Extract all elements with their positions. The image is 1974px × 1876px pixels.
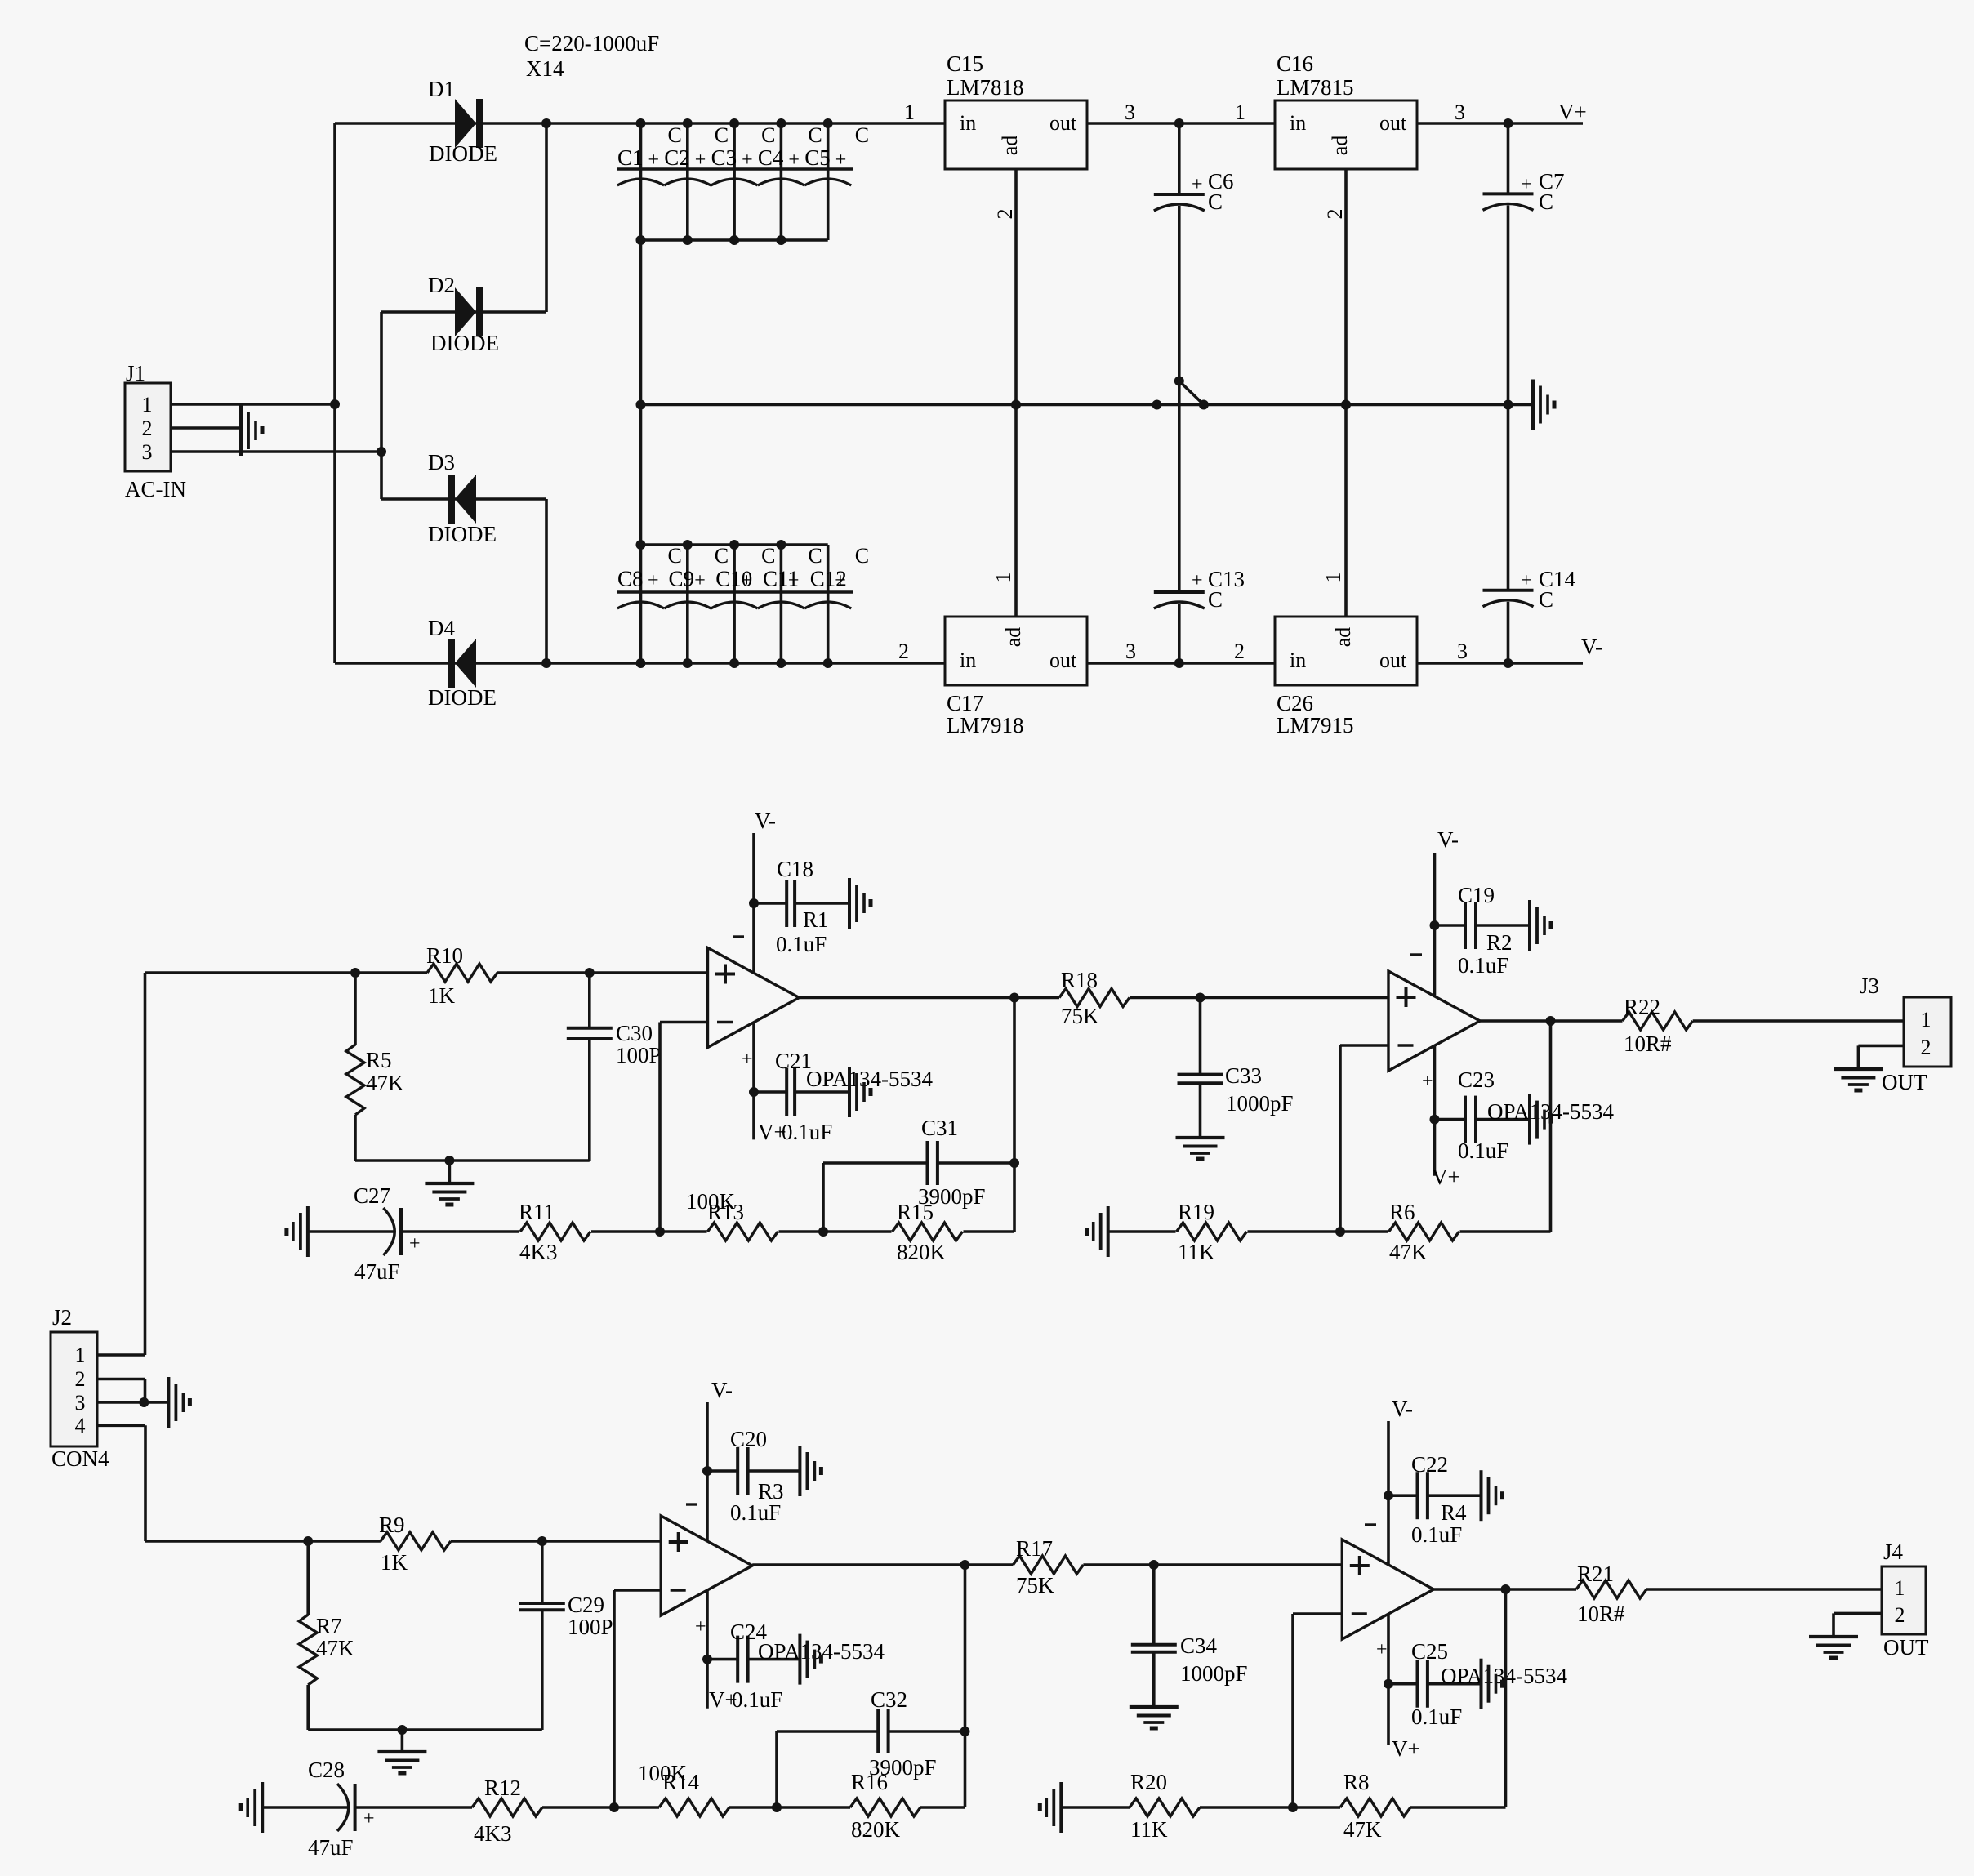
svg-text:D2: D2: [428, 273, 455, 297]
wire U1 output row: [800, 993, 1389, 1003]
svg-text:+: +: [1422, 1071, 1433, 1092]
resistor R7: [299, 1541, 354, 1730]
svg-text:V-: V-: [711, 1378, 733, 1402]
capacitor C11: [763, 544, 822, 663]
svg-text:0.1uF: 0.1uF: [1458, 953, 1508, 978]
ground at R19: [1087, 1206, 1108, 1257]
svg-text:+: +: [742, 1049, 753, 1070]
svg-text:0.1uF: 0.1uF: [1411, 1704, 1462, 1729]
svg-text:C3: C3: [711, 145, 737, 170]
svg-text:C20: C20: [730, 1427, 767, 1451]
wire U1 feedback vertical: [1009, 998, 1019, 1232]
capacitor bank C8-C12 plate line: [617, 592, 853, 608]
svg-text:1: 1: [904, 100, 915, 124]
svg-text:V+: V+: [1392, 1736, 1420, 1761]
svg-text:+: +: [788, 570, 800, 591]
svg-text:0.1uF: 0.1uF: [776, 932, 827, 956]
svg-text:OUT: OUT: [1882, 1070, 1927, 1094]
resistor R8: [1340, 1770, 1410, 1842]
svg-text:C: C: [855, 123, 869, 147]
ground at C28: [241, 1782, 262, 1833]
capacitor C29: [519, 1541, 613, 1730]
svg-text:1: 1: [75, 1344, 86, 1367]
ground at J3: [1834, 1069, 1883, 1090]
svg-text:C19: C19: [1458, 883, 1495, 907]
resistor R19: [1177, 1200, 1247, 1264]
svg-text:4K3: 4K3: [519, 1240, 558, 1264]
resistor R18: [1059, 968, 1130, 1028]
svg-text:ad: ad: [1328, 136, 1352, 156]
ground at C21: [849, 1067, 871, 1117]
svg-text:1K: 1K: [428, 983, 456, 1008]
svg-text:+: +: [695, 149, 706, 171]
svg-text:R19: R19: [1178, 1200, 1214, 1224]
capacitor C10: [715, 544, 775, 663]
svg-text:3: 3: [1125, 100, 1135, 124]
wire U4 inverting input: [1293, 1614, 1342, 1807]
svg-text:1: 1: [1321, 573, 1345, 583]
svg-text:2: 2: [75, 1367, 86, 1391]
svg-text:C26: C26: [1277, 691, 1313, 715]
svg-text:R7: R7: [316, 1614, 342, 1638]
svg-text:LM7915: LM7915: [1277, 713, 1354, 737]
regulator C26 LM7915: [1275, 617, 1417, 737]
wire U1 inverting input: [660, 1023, 708, 1232]
svg-text:C: C: [668, 123, 682, 147]
svg-text:3: 3: [75, 1391, 86, 1415]
svg-text:+: +: [694, 570, 706, 591]
resistor R11: [519, 1200, 590, 1264]
wire D3 anode to bottom rail: [545, 499, 548, 663]
capacitor C23: [1435, 1067, 1615, 1163]
connector J3: [1860, 974, 1951, 1067]
wire U4 output row: [1433, 1584, 1882, 1594]
svg-text:3: 3: [1125, 639, 1136, 663]
svg-text:out: out: [1379, 648, 1407, 672]
svg-text:DIODE: DIODE: [430, 331, 499, 355]
wire AC phase A vertical (J1 pin1 to D1/D4): [330, 123, 340, 663]
svg-text:C15: C15: [947, 51, 983, 76]
svg-text:2: 2: [1921, 1036, 1932, 1059]
svg-text:0.1uF: 0.1uF: [782, 1120, 832, 1144]
wire top bank bottom rail: [636, 235, 828, 245]
svg-text:C9: C9: [669, 567, 695, 591]
capacitor C9: [669, 544, 729, 663]
svg-text:R15: R15: [897, 1200, 934, 1224]
svg-text:C4: C4: [758, 145, 784, 170]
capacitor C21: [754, 1049, 934, 1144]
svg-text:2: 2: [898, 639, 909, 663]
svg-text:J4: J4: [1883, 1540, 1904, 1564]
svg-text:C: C: [761, 123, 775, 147]
svg-text:+: +: [363, 1808, 375, 1829]
svg-text:C: C: [715, 123, 729, 147]
svg-text:47uF: 47uF: [354, 1259, 400, 1284]
svg-text:DIODE: DIODE: [428, 685, 497, 710]
svg-text:2: 2: [1323, 209, 1347, 220]
svg-text:V+: V+: [1432, 1165, 1460, 1189]
svg-text:3: 3: [142, 440, 153, 464]
ground at J4: [1809, 1637, 1858, 1658]
svg-text:47K: 47K: [316, 1636, 354, 1660]
svg-text:LM7815: LM7815: [1277, 75, 1354, 100]
net OUT channel2: [1883, 1635, 1929, 1660]
capacitor C27: [308, 1183, 421, 1284]
svg-text:LM7818: LM7818: [947, 75, 1024, 100]
ground at R20: [1040, 1782, 1061, 1833]
op-amp U1: [708, 948, 800, 1048]
svg-text:+: +: [648, 570, 659, 591]
wire C6-C13 column: [1178, 381, 1181, 593]
capacitor C13: [1154, 567, 1245, 663]
svg-text:C: C: [1208, 189, 1223, 214]
capacitor C22: [1388, 1452, 1482, 1547]
wire J3 pin2 to ground: [1858, 1045, 1904, 1067]
wire D2 cathode to top rail: [545, 123, 548, 312]
svg-text:1: 1: [1921, 1008, 1932, 1032]
ground below C33: [1176, 1138, 1225, 1159]
op-amp U3: [661, 1516, 752, 1615]
wire D2 row: [381, 310, 546, 314]
svg-text:C: C: [668, 544, 682, 568]
wire R19/R6 row: [1108, 1227, 1551, 1237]
ground below C34: [1130, 1707, 1179, 1728]
svg-text:D1: D1: [428, 77, 455, 101]
svg-text:C29: C29: [568, 1593, 604, 1617]
wire J2 pin3 to ground: [97, 1397, 168, 1407]
capacitor C3: [711, 123, 776, 240]
svg-text:R1: R1: [803, 907, 829, 932]
capacitor C34: [1131, 1565, 1248, 1707]
svg-text:C: C: [715, 544, 729, 568]
svg-text:100P: 100P: [616, 1043, 662, 1067]
wire C17 out pin 3: [1087, 639, 1275, 663]
svg-text:R12: R12: [484, 1776, 521, 1800]
svg-text:+: +: [1521, 570, 1532, 591]
wire J1 pin2 to ground: [171, 426, 241, 430]
svg-text:2: 2: [993, 209, 1017, 220]
svg-text:R16: R16: [851, 1770, 888, 1794]
note C=220-1000uF X14: [524, 31, 659, 81]
svg-text:C32: C32: [871, 1687, 907, 1712]
capacitor C30: [567, 973, 662, 1161]
svg-text:+: +: [1192, 174, 1203, 195]
wire J2 pin4 to channel2 input: [97, 1425, 145, 1541]
svg-text:C30: C30: [616, 1021, 653, 1045]
resistor R21: [1576, 1562, 1646, 1626]
ground at C25: [1482, 1659, 1503, 1709]
net OUT channel1: [1882, 1070, 1927, 1094]
svg-text:ad: ad: [1331, 627, 1355, 648]
ground at J2: [168, 1377, 189, 1428]
diode D3: [428, 450, 497, 546]
svg-text:47uF: 47uF: [308, 1835, 354, 1860]
wire channel1 input row: [145, 968, 708, 978]
wire J2 pin1 to channel1 input: [97, 973, 145, 1355]
svg-text:C1: C1: [617, 145, 644, 170]
svg-text:J3: J3: [1860, 974, 1879, 998]
svg-text:47K: 47K: [1343, 1817, 1382, 1842]
svg-text:C18: C18: [777, 857, 813, 881]
wire channel2 input row: [145, 1536, 661, 1546]
svg-text:+: +: [835, 149, 847, 171]
svg-text:11K: 11K: [1178, 1240, 1215, 1264]
svg-text:C: C: [1539, 587, 1553, 612]
svg-text:1K: 1K: [381, 1550, 408, 1575]
resistor R13: [686, 1189, 778, 1241]
svg-text:R14: R14: [662, 1770, 700, 1794]
svg-text:C: C: [808, 123, 822, 147]
svg-text:C31: C31: [921, 1116, 958, 1140]
svg-text:75K: 75K: [1016, 1573, 1054, 1597]
net V+: [1558, 100, 1587, 124]
svg-text:2: 2: [1895, 1603, 1905, 1627]
svg-text:1: 1: [1235, 100, 1245, 124]
svg-text:J2: J2: [52, 1305, 72, 1330]
resistor R15: [893, 1200, 963, 1264]
svg-text:DIODE: DIODE: [429, 141, 497, 166]
capacitor C19: [1435, 883, 1531, 978]
svg-text:X14: X14: [526, 56, 564, 81]
wire J4 pin2 to ground: [1834, 1613, 1882, 1635]
svg-text:+: +: [835, 570, 846, 591]
capacitor bank C1-C5 plate line: [617, 169, 853, 185]
wire U3 feedback vertical: [960, 1565, 970, 1807]
pin 1 label C15: [904, 100, 915, 124]
regulator C15 LM7818: [945, 51, 1087, 169]
resistor R17: [1013, 1536, 1083, 1597]
svg-text:1000pF: 1000pF: [1180, 1661, 1248, 1686]
ground at C20: [800, 1446, 821, 1496]
svg-text:R5: R5: [366, 1048, 392, 1072]
wire U3 V+ pin: [695, 1590, 712, 1709]
diode D4: [428, 616, 497, 710]
wire U3 V- pin: [686, 1402, 712, 1541]
wire D3 row: [381, 497, 546, 501]
wire U1 V+ pin: [742, 1023, 759, 1139]
diode D1: [428, 77, 497, 166]
capacitor C24: [707, 1620, 885, 1712]
resistor R9: [379, 1513, 451, 1575]
resistor R12: [472, 1776, 542, 1846]
wire top bank to mid rail: [636, 240, 646, 545]
pin 2 label C17: [898, 639, 909, 663]
svg-text:R17: R17: [1016, 1536, 1053, 1561]
wire J2 pin2: [97, 1379, 145, 1403]
wire U3 output row: [752, 1560, 1342, 1570]
capacitor C5: [804, 123, 869, 240]
svg-text:47K: 47K: [1389, 1240, 1428, 1264]
wire U1 V- pin: [733, 833, 759, 974]
svg-text:C16: C16: [1277, 51, 1313, 76]
capacitor C8: [617, 544, 682, 663]
svg-text:1: 1: [142, 393, 153, 417]
svg-text:C28: C28: [308, 1758, 345, 1782]
ground at J1 pin2: [241, 405, 262, 456]
wire C6 diagonal tie to mid rail: [1152, 377, 1209, 410]
svg-text:C: C: [1539, 189, 1553, 214]
svg-text:LM7918: LM7918: [947, 713, 1024, 737]
wire C15 out pin 3: [1087, 100, 1275, 128]
svg-text:4K3: 4K3: [474, 1821, 512, 1846]
svg-text:75K: 75K: [1061, 1004, 1099, 1028]
capacitor C31: [823, 1116, 1014, 1232]
net V- for U3: [711, 1378, 733, 1402]
wire C16 pin2 / C26 pin1 vertical: [1321, 169, 1351, 617]
op-amp U4: [1342, 1540, 1433, 1639]
regulator C17 LM7918: [945, 617, 1087, 737]
capacitor C33: [1178, 998, 1294, 1139]
wire C26 out pin 3 to V-: [1417, 639, 1583, 668]
wire channel2 feedback row: [354, 1802, 965, 1812]
svg-text:C22: C22: [1411, 1452, 1448, 1477]
svg-text:out: out: [1049, 111, 1077, 135]
svg-text:C33: C33: [1225, 1063, 1262, 1088]
svg-text:820K: 820K: [897, 1240, 947, 1264]
capacitor C28: [262, 1758, 374, 1860]
capacitor C12: [810, 544, 869, 663]
svg-text:C8: C8: [617, 567, 644, 591]
wire U3 inverting input: [614, 1590, 661, 1807]
svg-text:R8: R8: [1343, 1770, 1370, 1794]
wire C15 pin2 / C17 pin1 vertical: [991, 169, 1021, 617]
svg-text:R9: R9: [379, 1513, 405, 1537]
ground at C19: [1530, 900, 1551, 951]
svg-text:ad: ad: [998, 136, 1022, 156]
capacitor C18: [754, 857, 849, 956]
svg-text:+: +: [742, 570, 753, 591]
svg-text:3: 3: [1455, 100, 1465, 124]
wire bottom rail (D4 row to C17 in): [335, 658, 1184, 668]
svg-text:D4: D4: [428, 616, 455, 640]
connector J1 AC-IN: [125, 361, 186, 501]
svg-text:V+: V+: [1558, 100, 1587, 124]
wire lower bank top rail: [636, 540, 828, 550]
svg-text:10R#: 10R#: [1624, 1032, 1672, 1056]
wire U2 output row: [1480, 1016, 1905, 1026]
svg-text:R11: R11: [519, 1200, 555, 1224]
wire R20/R8 row: [1061, 1802, 1505, 1812]
svg-text:+: +: [409, 1233, 421, 1254]
svg-text:out: out: [1049, 648, 1077, 672]
wire mid ground rail: [641, 400, 1534, 410]
diode D2: [428, 273, 499, 355]
svg-text:OUT: OUT: [1883, 1635, 1929, 1660]
regulator C16 LM7815: [1275, 51, 1417, 169]
svg-text:R4: R4: [1441, 1500, 1467, 1525]
capacitor C20: [707, 1427, 800, 1525]
resistor R22: [1623, 995, 1693, 1056]
ground below R7: [377, 1752, 426, 1773]
svg-text:0.1uF: 0.1uF: [730, 1500, 781, 1525]
svg-text:C23: C23: [1458, 1067, 1495, 1092]
svg-text:R18: R18: [1061, 968, 1098, 992]
wire top rail (D1 output to C15 in): [335, 118, 945, 128]
svg-text:0.1uF: 0.1uF: [732, 1687, 782, 1712]
svg-text:0.1uF: 0.1uF: [1411, 1522, 1462, 1547]
wire U2 feedback vertical: [1549, 1021, 1553, 1232]
svg-text:V-: V-: [1392, 1397, 1413, 1421]
capacitor C4: [758, 123, 822, 240]
svg-text:2: 2: [142, 417, 153, 440]
svg-text:R13: R13: [707, 1200, 744, 1224]
capacitor C2: [664, 123, 729, 240]
svg-text:+: +: [742, 149, 753, 171]
svg-text:in: in: [1290, 111, 1306, 135]
svg-text:J1: J1: [126, 361, 145, 385]
capacitor C1: [617, 123, 682, 240]
net V- for U2: [1437, 827, 1459, 852]
ground at C24: [800, 1634, 821, 1685]
svg-text:C: C: [855, 544, 869, 568]
capacitor C14: [1483, 405, 1576, 664]
wire AC phase B vertical (J1 pin3 to D2/D3): [377, 312, 386, 499]
svg-text:CON4: CON4: [51, 1446, 109, 1471]
svg-text:in: in: [1290, 648, 1306, 672]
wire U4 feedback vertical: [1504, 1589, 1508, 1807]
svg-text:R10: R10: [426, 943, 463, 968]
wire U2 inverting input: [1340, 1045, 1388, 1232]
ground below R5: [425, 1183, 474, 1205]
wire J1 pin1: [171, 403, 335, 406]
wire U4 V- pin: [1365, 1421, 1393, 1565]
svg-text:R20: R20: [1130, 1770, 1167, 1794]
wire U4 V+ pin: [1376, 1614, 1420, 1761]
svg-text:11K: 11K: [1130, 1817, 1168, 1842]
resistor R14: [638, 1761, 729, 1816]
svg-text:DIODE: DIODE: [428, 522, 497, 546]
wire J1 pin3: [171, 450, 381, 453]
ground at C18: [849, 878, 871, 929]
net V- for U1: [755, 809, 776, 833]
svg-text:+: +: [648, 149, 660, 171]
svg-text:AC-IN: AC-IN: [125, 477, 186, 501]
svg-text:+: +: [695, 1616, 706, 1638]
net V- for U4: [1392, 1397, 1413, 1421]
resistor R16: [850, 1770, 920, 1842]
svg-text:out: out: [1379, 111, 1407, 135]
wire channel1 feedback row: [400, 1227, 1014, 1237]
svg-text:R21: R21: [1577, 1562, 1614, 1586]
ground at C23: [1530, 1094, 1551, 1145]
svg-text:2: 2: [1234, 639, 1245, 663]
svg-text:1: 1: [1895, 1576, 1905, 1600]
svg-text:+: +: [1521, 174, 1532, 195]
svg-text:ad: ad: [1001, 627, 1025, 648]
svg-text:R22: R22: [1624, 995, 1660, 1019]
capacitor C6: [1154, 123, 1234, 381]
ground at mid rail: [1533, 380, 1554, 430]
svg-text:C: C: [761, 544, 775, 568]
resistor R5: [346, 973, 404, 1161]
svg-text:in: in: [960, 648, 976, 672]
svg-text:V-: V-: [755, 809, 776, 833]
svg-text:4: 4: [75, 1414, 86, 1437]
svg-text:C25: C25: [1411, 1639, 1448, 1664]
capacitor C7: [1483, 123, 1565, 405]
svg-text:47K: 47K: [366, 1071, 404, 1095]
svg-text:in: in: [960, 111, 976, 135]
svg-text:10R#: 10R#: [1577, 1602, 1625, 1626]
op-amp U2: [1388, 971, 1480, 1071]
svg-text:1000pF: 1000pF: [1226, 1091, 1294, 1116]
wire R7/C29 ground row: [308, 1725, 542, 1750]
svg-text:V-: V-: [1581, 635, 1602, 659]
svg-text:820K: 820K: [851, 1817, 901, 1842]
svg-text:C27: C27: [354, 1183, 390, 1208]
svg-text:+: +: [1192, 570, 1203, 591]
svg-text:3: 3: [1457, 639, 1468, 663]
